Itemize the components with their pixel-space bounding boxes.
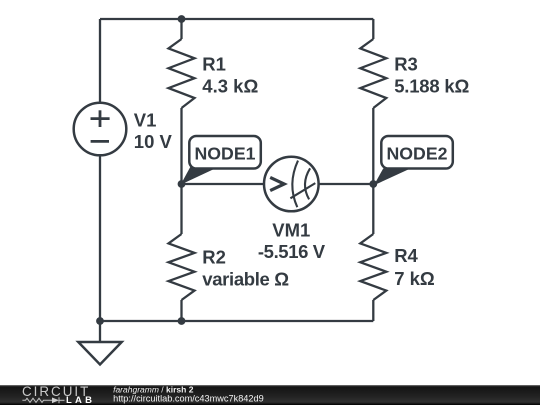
wire bottom rail xyxy=(100,320,373,322)
voltage source V1 circle xyxy=(74,103,127,156)
wire R3 top lead xyxy=(372,19,374,39)
svg-text:R3: R3 xyxy=(394,54,418,75)
wire R3 bottom lead to NODE2 xyxy=(372,108,374,184)
svg-text:4.3 kΩ: 4.3 kΩ xyxy=(202,76,258,97)
svg-text:R2: R2 xyxy=(202,247,226,268)
svg-text:NODE2: NODE2 xyxy=(387,144,448,164)
wire R1 top lead xyxy=(180,19,182,39)
node NODE1 callout tail xyxy=(181,167,219,185)
wire R2 bottom lead xyxy=(180,300,182,321)
resistor R3 xyxy=(360,39,386,108)
node NODE2 callout box xyxy=(381,136,453,169)
svg-text:NODE1: NODE1 xyxy=(195,144,256,164)
V1 plus sign xyxy=(91,110,110,127)
wire ground stub xyxy=(99,321,101,342)
wire voltmeter to NODE2 xyxy=(319,183,374,185)
svg-text:V1: V1 xyxy=(134,110,157,131)
svg-text:5.188 kΩ: 5.188 kΩ xyxy=(394,76,469,97)
svg-text:http://circuitlab.com/c43mwc7k: http://circuitlab.com/c43mwc7k842d9 xyxy=(113,393,264,403)
svg-text:10 V: 10 V xyxy=(134,131,173,152)
wire left branch lower (V1 to bottom rail) xyxy=(99,156,101,321)
resistor R2 xyxy=(169,234,195,300)
junction dot top rail / R1 xyxy=(178,15,186,23)
svg-text:-5.516 V: -5.516 V xyxy=(258,241,326,262)
junction dot NODE2 xyxy=(369,180,377,188)
V1 minus sign xyxy=(91,140,109,143)
node NODE2 callout tail xyxy=(374,169,411,186)
junction dot bottom rail / R2 xyxy=(178,317,186,325)
svg-text:VM1: VM1 xyxy=(272,220,310,241)
wire NODE1 to R2 xyxy=(180,184,182,234)
svg-text:R4: R4 xyxy=(394,245,418,266)
voltmeter VM1 needle xyxy=(290,183,315,198)
wire NODE1 to voltmeter xyxy=(182,183,265,185)
footer bar xyxy=(0,385,540,405)
junction dot bottom rail / ground xyxy=(96,317,104,325)
junction dot NODE1 xyxy=(178,180,186,188)
resistor R4 xyxy=(360,234,386,300)
voltmeter VM1 scale arc 2 xyxy=(305,168,310,199)
wire R1 bottom lead to NODE1 xyxy=(180,108,182,184)
voltmeter VM1 scale arc 1 xyxy=(292,161,298,208)
voltmeter VM1 body xyxy=(264,157,319,212)
svg-text:7 kΩ: 7 kΩ xyxy=(394,268,435,289)
resistor R1 xyxy=(169,39,195,108)
wire left branch upper (top rail to V1) xyxy=(99,19,101,102)
CircuitLab logo mini schematic (resistor + diode) xyxy=(22,397,64,403)
voltmeter VM1 polarity chevron xyxy=(270,177,284,190)
wire R4 bottom lead xyxy=(372,300,374,321)
svg-text:LAB: LAB xyxy=(66,395,95,405)
svg-text:R1: R1 xyxy=(202,54,226,75)
node NODE1 callout box xyxy=(189,136,260,169)
svg-text:variable Ω: variable Ω xyxy=(202,268,289,289)
wire NODE2 to R4 xyxy=(372,184,374,234)
ground xyxy=(78,342,121,365)
wire top rail xyxy=(100,18,373,20)
